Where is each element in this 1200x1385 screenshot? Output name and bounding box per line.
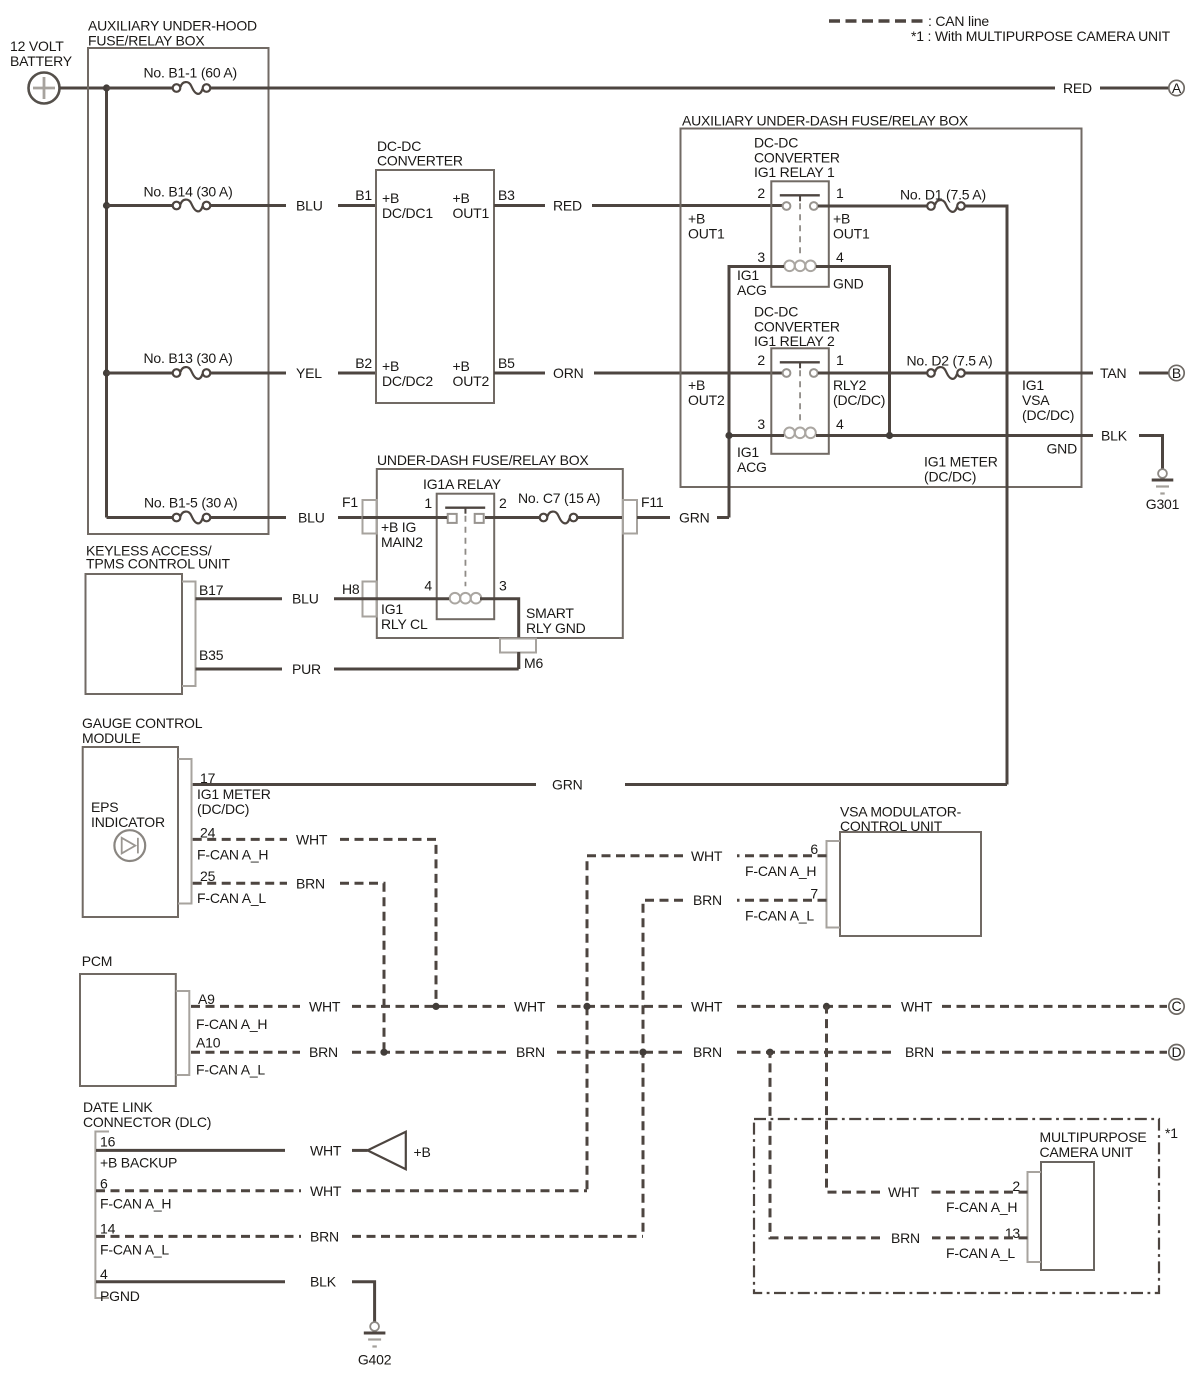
svg-text:F-CAN A_H: F-CAN A_H bbox=[946, 1199, 1017, 1215]
wire CAN H bus segment 3 bbox=[557, 1005, 682, 1008]
svg-text:ACG: ACG bbox=[737, 282, 767, 298]
node CAN H junction camera WHT bbox=[823, 1003, 830, 1010]
svg-text:WHT: WHT bbox=[310, 1183, 342, 1199]
svg-text:25: 25 bbox=[200, 868, 216, 884]
wire WHT to corner, down to CAN H bus bbox=[340, 839, 436, 1006]
fuse D1 No. D1 (7.5 A) bbox=[900, 187, 986, 212]
svg-text:WHT: WHT bbox=[901, 998, 933, 1014]
wire ORN to relay2 pin2 bbox=[594, 372, 782, 375]
wire relay2 pin1 to fuse D2 bbox=[818, 372, 927, 375]
EPS indicator lamp icon (diode in circle) bbox=[114, 830, 145, 861]
svg-text:OUT1: OUT1 bbox=[453, 205, 490, 221]
wire relay1 pin1 to fuse D1 bbox=[818, 205, 927, 208]
wire M6 vertical through connector bbox=[517, 652, 520, 669]
svg-text:12 VOLT: 12 VOLT bbox=[10, 38, 64, 54]
wire DLC pin16 to WHT label bbox=[96, 1149, 285, 1152]
pin +B OUT2 labels bbox=[453, 358, 490, 389]
svg-text:F11: F11 bbox=[641, 494, 664, 510]
wire WHT corner up to CAN H bus bbox=[827, 1006, 881, 1192]
svg-text:DC-DC: DC-DC bbox=[754, 304, 798, 320]
svg-text:A: A bbox=[1172, 80, 1182, 96]
fuse C7 No. C7 (15 A) bbox=[518, 490, 600, 523]
VSA modulator-control unit bbox=[827, 804, 982, 937]
node battery bus junction at B1-1 bbox=[103, 84, 110, 91]
wire fuse C7 to connector F11 bbox=[578, 516, 623, 519]
svg-text:B5: B5 bbox=[498, 355, 515, 371]
svg-text:DC-DC: DC-DC bbox=[754, 135, 798, 151]
fuse B13 No. B13 (30 A) bbox=[144, 350, 233, 379]
DC-DC converter U1 bbox=[376, 138, 494, 403]
svg-text:ACG: ACG bbox=[737, 459, 767, 475]
wire CAN L bus segment 3 bbox=[557, 1051, 684, 1054]
svg-text:AUXILIARY UNDER-DASH FUSE/RELA: AUXILIARY UNDER-DASH FUSE/RELAY BOX bbox=[682, 113, 969, 129]
svg-text:CONNECTOR (DLC): CONNECTOR (DLC) bbox=[83, 1114, 211, 1130]
svg-text:WHT: WHT bbox=[888, 1184, 920, 1200]
relay K1 label (DC-DC CONVERTER IG1 RELAY 1) bbox=[754, 135, 840, 181]
wire CAN H bus segment 5 to connector C bbox=[942, 1005, 1167, 1008]
wire BRN to corner, down to CAN L bus bbox=[340, 883, 384, 1052]
wire IG1A pin2 to fuse C7 bbox=[485, 516, 539, 519]
svg-text:PCM: PCM bbox=[82, 953, 113, 969]
wire bus to fuse B14 bbox=[107, 204, 173, 207]
svg-text:BLU: BLU bbox=[296, 198, 323, 214]
svg-text:+B BACKUP: +B BACKUP bbox=[100, 1155, 177, 1171]
svg-text:No. B13 (30 A): No. B13 (30 A) bbox=[144, 350, 233, 366]
svg-text:IG1: IG1 bbox=[737, 444, 759, 460]
node CAN H junction gauge24 bbox=[432, 1003, 439, 1010]
svg-text:3: 3 bbox=[757, 416, 765, 432]
label EPS INDICATOR bbox=[91, 799, 165, 830]
svg-text:(DC/DC): (DC/DC) bbox=[833, 392, 885, 408]
svg-text:(DC/DC): (DC/DC) bbox=[1022, 407, 1074, 423]
wire gauge pin17 to GRN label bbox=[193, 783, 536, 786]
node junction GRN/relay coils at (729,435.5) bbox=[725, 432, 732, 439]
svg-text:RED: RED bbox=[1063, 80, 1092, 96]
svg-text:H8: H8 bbox=[342, 581, 360, 597]
wire CAN L bus segment 4 bbox=[737, 1051, 896, 1054]
fuse D2 No. D2 (7.5 A) bbox=[907, 353, 993, 379]
svg-text:PUR: PUR bbox=[292, 661, 321, 677]
svg-text:WHT: WHT bbox=[309, 998, 341, 1014]
svg-text:1: 1 bbox=[836, 352, 844, 368]
node D (connector circle) bbox=[1169, 1044, 1184, 1060]
svg-text:RLY CL: RLY CL bbox=[381, 616, 428, 632]
svg-text:WHT: WHT bbox=[514, 998, 546, 1014]
wire fuse B1-5 to BLU label bbox=[211, 516, 286, 519]
svg-text:+B: +B bbox=[833, 211, 850, 227]
svg-text:RLY GND: RLY GND bbox=[526, 620, 586, 636]
wire F1 to IG1A pin1 bbox=[363, 516, 448, 519]
svg-text:No. B1-5 (30 A): No. B1-5 (30 A) bbox=[144, 495, 238, 511]
wire IG1A pin3 to M6, down bbox=[480, 599, 519, 669]
node CAN L junction VSA/DLC BRN bbox=[639, 1049, 646, 1056]
svg-text:BRN: BRN bbox=[891, 1230, 920, 1246]
label IG1 METER (DC/DC) at gauge bbox=[197, 786, 271, 817]
label IG1 RLY CL bbox=[381, 601, 428, 632]
wire PUR to M6 drop bbox=[334, 668, 519, 671]
node CAN H junction VSA/DLC WHT bbox=[583, 1003, 590, 1010]
svg-text:+B: +B bbox=[382, 190, 399, 206]
relay K3 (IG1A relay) bbox=[437, 494, 495, 620]
wire bus to fuse B1-1 bbox=[107, 87, 173, 90]
svg-text:1: 1 bbox=[424, 495, 432, 511]
svg-text:2: 2 bbox=[499, 495, 507, 511]
svg-text:+B: +B bbox=[382, 358, 399, 374]
svg-text:IG1 METER: IG1 METER bbox=[197, 786, 271, 802]
svg-text:BRN: BRN bbox=[309, 1044, 338, 1060]
wire fuse D2 to box edge (TAN row) bbox=[965, 372, 1093, 375]
svg-text:PGND: PGND bbox=[100, 1288, 140, 1304]
svg-text:(DC/DC): (DC/DC) bbox=[924, 469, 976, 485]
wire relay1 pin4 to right corner, down bbox=[816, 267, 890, 436]
svg-text:3: 3 bbox=[757, 249, 765, 265]
svg-text:YEL: YEL bbox=[296, 365, 322, 381]
label RLY2 (DC/DC) (relay2 output) bbox=[833, 377, 885, 408]
svg-text:G301: G301 bbox=[1146, 496, 1180, 512]
svg-text:WHT: WHT bbox=[691, 998, 723, 1014]
wire relay2 pin4 to GND row bbox=[816, 434, 1093, 437]
wire bus to fuse B1-5 bbox=[107, 516, 173, 519]
node junction relay1 GND at (889.5,435.5) bbox=[886, 432, 893, 439]
svg-text:F-CAN A_L: F-CAN A_L bbox=[196, 1062, 265, 1078]
svg-text:D: D bbox=[1172, 1044, 1182, 1060]
svg-text:BLU: BLU bbox=[292, 591, 319, 607]
pin +B OUT1 labels bbox=[453, 190, 490, 221]
connector H8 bbox=[342, 581, 377, 617]
wire bus to fuse B13 bbox=[107, 372, 173, 375]
svg-text:BRN: BRN bbox=[693, 1044, 722, 1060]
svg-text:+B: +B bbox=[453, 190, 470, 206]
svg-text:2: 2 bbox=[757, 352, 765, 368]
wire RED to relay1 pin2 bbox=[592, 204, 782, 207]
svg-text:BRN: BRN bbox=[296, 875, 325, 891]
svg-text:BLK: BLK bbox=[1101, 428, 1128, 444]
node A (connector circle) bbox=[1169, 80, 1184, 96]
wire BRN corner down to CAN L bus and DLC bbox=[643, 900, 683, 1236]
wire DLC pin4 to BLK label bbox=[96, 1280, 285, 1283]
svg-text:TPMS CONTROL UNIT: TPMS CONTROL UNIT bbox=[86, 556, 231, 572]
svg-text:GAUGE CONTROL: GAUGE CONTROL bbox=[82, 715, 203, 731]
svg-text:F-CAN A_L: F-CAN A_L bbox=[946, 1245, 1015, 1261]
*1 option boundary (dash-dot box) bbox=[754, 1119, 1178, 1293]
svg-text:OUT1: OUT1 bbox=[833, 226, 870, 242]
svg-text:C: C bbox=[1172, 998, 1182, 1014]
wire B3 to RED label bbox=[494, 204, 545, 207]
svg-text:4: 4 bbox=[836, 416, 844, 432]
svg-text:+B: +B bbox=[414, 1144, 431, 1160]
svg-text:CAMERA UNIT: CAMERA UNIT bbox=[1040, 1144, 1134, 1160]
svg-text:CONVERTER: CONVERTER bbox=[377, 153, 463, 169]
svg-text:RED: RED bbox=[553, 198, 582, 214]
svg-text:EPS: EPS bbox=[91, 799, 118, 815]
svg-text:*1: *1 bbox=[1165, 1125, 1178, 1141]
wire DLC pin6 (CAN H) to WHT label bbox=[96, 1189, 301, 1192]
wire CAN L bus segment 5 to connector D bbox=[942, 1051, 1167, 1054]
svg-text:BRN: BRN bbox=[905, 1044, 934, 1060]
wire YEL to DC-DC converter pin B2 bbox=[338, 372, 376, 375]
svg-text:BRN: BRN bbox=[310, 1228, 339, 1244]
svg-text:No. C7 (15 A): No. C7 (15 A) bbox=[518, 490, 600, 506]
wire B17 to BLU label bbox=[196, 597, 283, 600]
wire battery to bus bbox=[60, 87, 107, 90]
wire CAN L bus (BRN) segment 1 bbox=[191, 1051, 300, 1054]
auxiliary under-hood fuse/relay box bbox=[88, 18, 269, 535]
svg-text:6: 6 bbox=[100, 1176, 108, 1192]
svg-text:BRN: BRN bbox=[693, 892, 722, 908]
wire DLC pin14 (CAN L) to BRN label bbox=[96, 1235, 301, 1238]
wire relay1 pin3 to left corner, down to junction bbox=[729, 267, 784, 518]
wire VSA pin7 to BRN label bbox=[737, 899, 827, 902]
wire BLU to DC-DC converter pin B1 bbox=[338, 204, 376, 207]
svg-text:No. D2 (7.5 A): No. D2 (7.5 A) bbox=[907, 353, 993, 369]
label +B OUT2 (box input) bbox=[688, 377, 725, 408]
svg-text:B2: B2 bbox=[355, 355, 372, 371]
svg-text:SMART: SMART bbox=[526, 605, 574, 621]
svg-text:BRN: BRN bbox=[516, 1044, 545, 1060]
svg-text:+B: +B bbox=[688, 377, 705, 393]
svg-text:INDICATOR: INDICATOR bbox=[91, 814, 165, 830]
svg-text:B1: B1 bbox=[355, 187, 372, 203]
svg-text:WHT: WHT bbox=[310, 1142, 342, 1158]
label SMART RLY GND bbox=[526, 605, 586, 636]
svg-text:IG1 RELAY 1: IG1 RELAY 1 bbox=[754, 164, 835, 180]
svg-text:4: 4 bbox=[836, 249, 844, 265]
svg-text:IG1 RELAY 2: IG1 RELAY 2 bbox=[754, 333, 835, 349]
fuse B1-5 No. B1-5 (30 A) bbox=[144, 495, 238, 524]
svg-text:OUT1: OUT1 bbox=[688, 226, 725, 242]
svg-text:VSA: VSA bbox=[1022, 392, 1050, 408]
svg-text:1: 1 bbox=[836, 185, 844, 201]
svg-text:: CAN line: : CAN line bbox=[928, 13, 989, 29]
fuse B14 No. B14 (30 A) bbox=[144, 184, 233, 212]
wire RED to connector A bbox=[1100, 87, 1168, 90]
node battery bus junction at B14 bbox=[103, 202, 110, 209]
svg-text:IG1 METER: IG1 METER bbox=[924, 454, 998, 470]
ground G402 bbox=[358, 1322, 392, 1367]
wire BLK to ground G402 bbox=[352, 1282, 375, 1322]
svg-text:GND: GND bbox=[1046, 441, 1077, 457]
wire BLK to ground G301 bbox=[1139, 436, 1163, 470]
node battery bus junction at B13 bbox=[103, 369, 110, 376]
svg-text:UNDER-DASH FUSE/RELAY BOX: UNDER-DASH FUSE/RELAY BOX bbox=[377, 452, 589, 468]
svg-text:M6: M6 bbox=[524, 655, 543, 671]
svg-text:4: 4 bbox=[100, 1266, 108, 1282]
keyless access/TPMS control unit bbox=[86, 543, 231, 695]
wire gauge pin25 (CAN L) to BRN label bbox=[193, 882, 287, 885]
label +B OUT1 (relay1 output) bbox=[833, 211, 870, 242]
svg-text:+B: +B bbox=[453, 358, 470, 374]
svg-text:RLY2: RLY2 bbox=[833, 377, 867, 393]
wire CAN H bus (WHT) segment 1 bbox=[191, 1005, 300, 1008]
label IG1 VSA (DC/DC) bbox=[1022, 377, 1074, 423]
wire BRN corner up to CAN L bus bbox=[770, 1052, 880, 1238]
svg-text:+B IG: +B IG bbox=[381, 519, 416, 535]
svg-text:GRN: GRN bbox=[552, 777, 583, 793]
wire B5 to ORN label bbox=[494, 372, 545, 375]
svg-text:F-CAN A_H: F-CAN A_H bbox=[197, 847, 268, 863]
svg-text:WHT: WHT bbox=[296, 831, 328, 847]
relay K2 (IG1 relay 2) bbox=[771, 348, 829, 454]
wire fuse B14 to BLU label bbox=[211, 204, 286, 207]
svg-text:MAIN2: MAIN2 bbox=[381, 534, 423, 550]
wire TAN to connector B bbox=[1139, 372, 1168, 375]
svg-text:F-CAN A_H: F-CAN A_H bbox=[745, 863, 816, 879]
svg-text:14: 14 bbox=[100, 1221, 116, 1237]
fuse B1-1 No. B1-1 (60 A) bbox=[144, 65, 238, 94]
svg-text:G402: G402 bbox=[358, 1352, 392, 1368]
svg-text:F-CAN A_H: F-CAN A_H bbox=[196, 1016, 267, 1032]
wire WHT corner down to CAN H bus and DLC bbox=[587, 856, 683, 1191]
wire camera pin2 (CAN H) to WHT label bbox=[929, 1191, 1028, 1194]
node CAN L junction gauge25 bbox=[380, 1049, 387, 1056]
wire BRN to VSA/bus vertical bbox=[352, 1235, 643, 1238]
connector M6 bbox=[500, 639, 543, 672]
data link connector (DLC) bbox=[83, 1099, 211, 1298]
wire fuse D1 to corner, down to IG1 METER row bbox=[965, 206, 1007, 785]
svg-text:(DC/DC): (DC/DC) bbox=[197, 801, 249, 817]
node CAN L junction camera BRN bbox=[766, 1049, 773, 1056]
svg-text:DC/DC1: DC/DC1 bbox=[382, 205, 433, 221]
pin +B DC/DC1 labels bbox=[382, 190, 433, 221]
wire CAN H bus segment 2 bbox=[352, 1005, 505, 1008]
label IG1 ACG (relay2 coil) bbox=[737, 444, 767, 475]
svg-text:ORN: ORN bbox=[553, 365, 584, 381]
gauge control module bbox=[82, 715, 203, 917]
wire F11 to GRN label bbox=[637, 516, 670, 519]
svg-text:OUT2: OUT2 bbox=[453, 373, 490, 389]
wire H8 to IG1A pin4 (coil) bbox=[363, 597, 450, 600]
svg-text:B3: B3 bbox=[498, 187, 515, 203]
wire GRN to D1 drop corner bbox=[625, 783, 1007, 786]
wire fuse B13 to YEL label bbox=[211, 372, 286, 375]
svg-text:No. B1-1 (60 A): No. B1-1 (60 A) bbox=[144, 65, 238, 81]
auxiliary under-dash fuse/relay box bbox=[681, 113, 1082, 488]
label IG1 METER (DC/DC) bbox=[924, 454, 998, 485]
wire BLU to H8 bbox=[334, 597, 363, 600]
label IG1 ACG (relay1 coil) bbox=[737, 267, 767, 298]
PCM (powertrain control module) bbox=[80, 953, 189, 1086]
relay K2 label (DC-DC CONVERTER IG1 RELAY 2) bbox=[754, 304, 840, 350]
power symbol +B (triangle) bbox=[368, 1132, 431, 1170]
svg-text:TAN: TAN bbox=[1100, 365, 1126, 381]
svg-text:4: 4 bbox=[424, 578, 432, 594]
wire CAN L bus segment 2 bbox=[352, 1051, 507, 1054]
svg-text:GRN: GRN bbox=[679, 510, 710, 526]
under-dash fuse/relay box bbox=[377, 452, 623, 638]
svg-text:FUSE/RELAY BOX: FUSE/RELAY BOX bbox=[88, 33, 205, 49]
svg-text:IG1: IG1 bbox=[1022, 377, 1044, 393]
svg-text:DATE LINK: DATE LINK bbox=[83, 1099, 153, 1115]
node B (connector circle) bbox=[1169, 365, 1184, 381]
svg-text:B17: B17 bbox=[199, 582, 224, 598]
wire WHT to +B symbol bbox=[352, 1149, 368, 1152]
wire GRN junction to relay2 pin3 bbox=[729, 434, 784, 437]
svg-text:DC/DC2: DC/DC2 bbox=[382, 373, 433, 389]
svg-text:BATTERY: BATTERY bbox=[10, 53, 73, 69]
wire fuse B1-1 to RED label bbox=[211, 87, 1055, 90]
svg-text:A9: A9 bbox=[198, 991, 215, 1007]
svg-text:MULTIPURPOSE: MULTIPURPOSE bbox=[1040, 1129, 1147, 1145]
svg-text:3: 3 bbox=[499, 578, 507, 594]
svg-text:BLU: BLU bbox=[298, 510, 325, 526]
svg-text:B: B bbox=[1172, 365, 1181, 381]
svg-text:B35: B35 bbox=[199, 647, 224, 663]
wire WHT to VSA/bus vertical bbox=[352, 1189, 587, 1192]
svg-text:IG1: IG1 bbox=[381, 601, 403, 617]
svg-text:16: 16 bbox=[100, 1134, 116, 1150]
wire BLU to connector F1 bbox=[338, 516, 363, 519]
svg-text:2: 2 bbox=[757, 185, 765, 201]
svg-text:A10: A10 bbox=[196, 1035, 221, 1051]
svg-text:OUT2: OUT2 bbox=[688, 392, 725, 408]
ground G301 bbox=[1146, 469, 1180, 512]
pin +B DC/DC2 labels bbox=[382, 358, 433, 389]
wire battery bus (vertical) bbox=[105, 88, 108, 518]
wire VSA pin6 to WHT label bbox=[737, 854, 827, 857]
svg-text:WHT: WHT bbox=[691, 848, 723, 864]
svg-text:MODULE: MODULE bbox=[82, 730, 141, 746]
node C (connector circle) bbox=[1169, 998, 1184, 1014]
svg-text:F-CAN A_L: F-CAN A_L bbox=[197, 890, 266, 906]
svg-text:No. B14 (30 A): No. B14 (30 A) bbox=[144, 184, 233, 200]
wire B35 to PUR label bbox=[196, 668, 283, 671]
wire gauge pin24 (CAN H) to WHT label bbox=[193, 838, 287, 841]
legend: CAN line sample bbox=[829, 13, 989, 29]
svg-text:BLK: BLK bbox=[310, 1274, 337, 1290]
svg-text:IG1A RELAY: IG1A RELAY bbox=[423, 476, 502, 492]
svg-text:GND: GND bbox=[833, 276, 864, 292]
svg-text:F-CAN A_L: F-CAN A_L bbox=[100, 1242, 169, 1258]
svg-text:+B: +B bbox=[688, 211, 705, 227]
label +B IG MAIN2 bbox=[381, 519, 423, 550]
svg-text:F-CAN A_H: F-CAN A_H bbox=[100, 1196, 171, 1212]
svg-text:AUXILIARY UNDER-HOOD: AUXILIARY UNDER-HOOD bbox=[88, 18, 257, 34]
wire GRN up to relay coils junction bbox=[717, 516, 729, 519]
connector F1 bbox=[342, 494, 377, 534]
battery B1 (12 volt battery) bbox=[10, 38, 73, 104]
wire camera pin13 (CAN L) to BRN label bbox=[932, 1236, 1028, 1239]
wire CAN H bus segment 4 bbox=[737, 1005, 892, 1008]
svg-text:F1: F1 bbox=[342, 494, 358, 510]
label +B OUT1 (box input) bbox=[688, 211, 725, 242]
svg-text:*1 : With MULTIPURPOSE CAMERA: *1 : With MULTIPURPOSE CAMERA UNIT bbox=[911, 28, 1171, 44]
svg-text:IG1: IG1 bbox=[737, 267, 759, 283]
multipurpose camera unit bbox=[1028, 1129, 1147, 1270]
svg-text:F-CAN A_L: F-CAN A_L bbox=[745, 908, 814, 924]
connector F11 bbox=[623, 494, 664, 534]
relay K1 (IG1 relay 1) bbox=[771, 181, 829, 286]
